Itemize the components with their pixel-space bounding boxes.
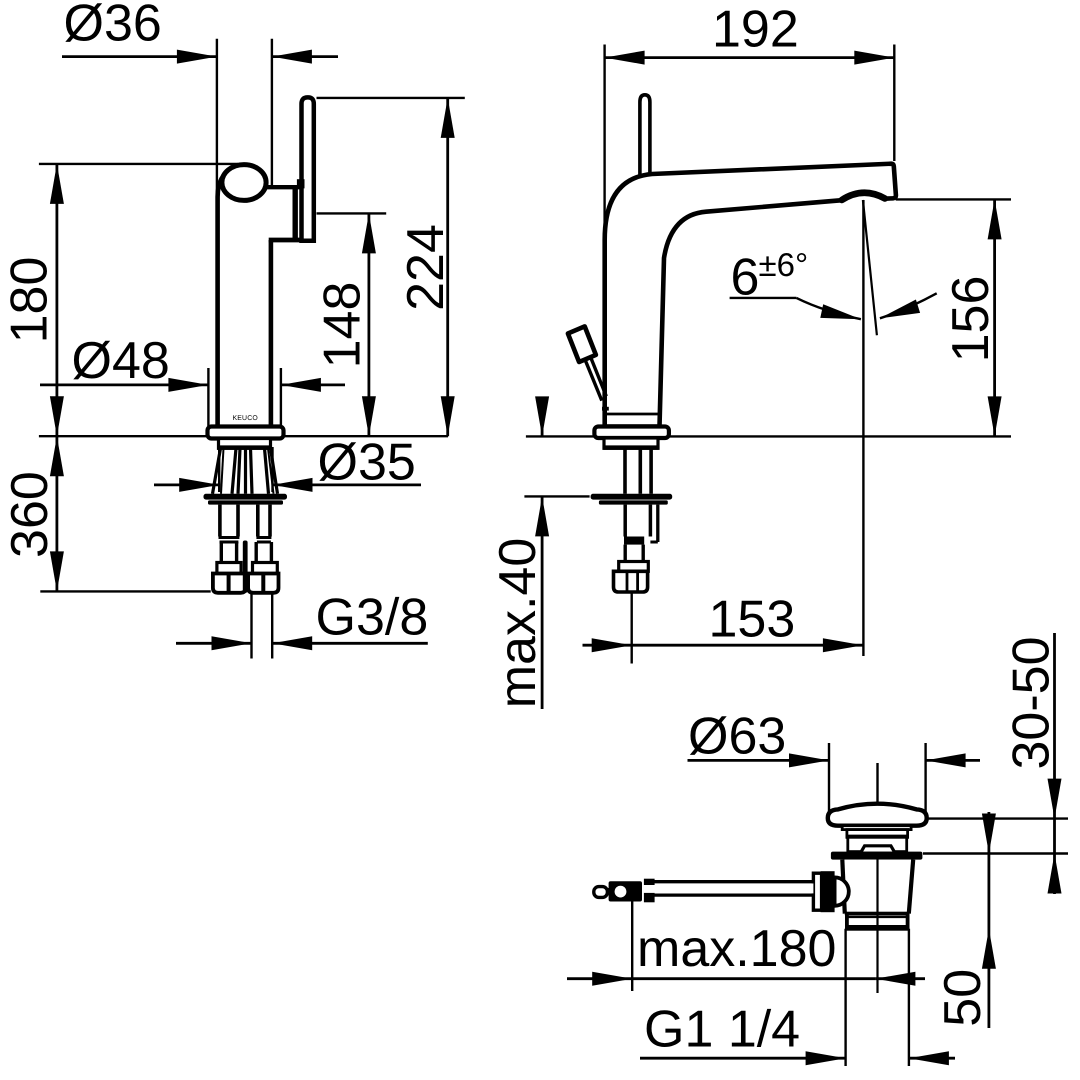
svg-text:192: 192	[712, 1, 799, 59]
svg-text:6: 6	[731, 249, 760, 307]
svg-text:KEUCO: KEUCO	[232, 415, 258, 422]
svg-text:360: 360	[1, 471, 59, 558]
svg-text:180: 180	[1, 257, 59, 344]
svg-text:Ø48: Ø48	[72, 332, 170, 390]
svg-text:50: 50	[934, 969, 992, 1027]
svg-text:Ø35: Ø35	[318, 434, 416, 492]
svg-text:153: 153	[709, 591, 796, 649]
svg-text:30-50: 30-50	[1003, 637, 1061, 770]
svg-text:max.40: max.40	[489, 538, 547, 709]
svg-text:G3/8: G3/8	[316, 589, 429, 647]
svg-text:Ø36: Ø36	[64, 0, 162, 53]
svg-text:156: 156	[942, 276, 1000, 363]
svg-text:G1 1/4: G1 1/4	[644, 1001, 800, 1059]
svg-text:224: 224	[397, 224, 455, 311]
svg-text:max.180: max.180	[637, 920, 836, 978]
svg-text:±6°: ±6°	[759, 246, 809, 283]
svg-text:Ø63: Ø63	[688, 708, 786, 766]
svg-text:148: 148	[314, 282, 372, 369]
